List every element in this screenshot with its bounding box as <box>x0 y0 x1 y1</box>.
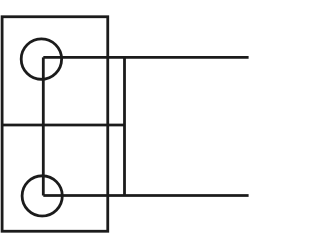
bottom pin circle <box>22 176 62 216</box>
top pin circle <box>21 39 61 79</box>
top rail line <box>43 56 248 59</box>
hinge leaf plate (outer rectangle) <box>2 17 108 232</box>
plate divider line <box>2 124 124 127</box>
knuckle box right vertical <box>123 57 126 195</box>
knuckle box left vertical <box>42 57 45 195</box>
bottom rail line <box>43 194 248 197</box>
